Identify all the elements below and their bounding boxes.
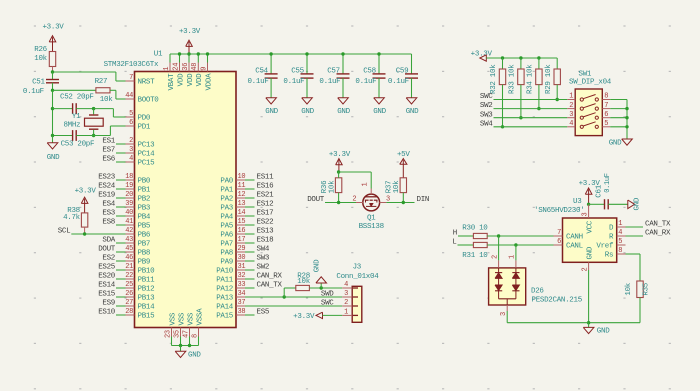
wire VBAT stub: [169, 54, 171, 63]
svg-text:24: 24: [172, 63, 180, 71]
capacitor C55 0.1uF: [306, 54, 308, 74]
wire to label ES17: [245, 215, 255, 217]
wire VSS bottom rail: [172, 345, 199, 347]
U1 pin 23 VSS (bottom): [171, 328, 173, 337]
svg-text:DIN: DIN: [417, 196, 430, 204]
resistor R26 10k: [49, 52, 55, 67]
D26 pin 2 (left): [498, 236, 500, 260]
junction SCL/R38: [83, 232, 86, 235]
wire PA13 to J3 (SWD): [245, 296, 342, 298]
junction gnd rail: [587, 321, 590, 324]
wire to label ES4: [116, 206, 126, 208]
wire to gnd bus: [610, 108, 627, 110]
svg-text:32: 32: [238, 272, 246, 280]
connector J3 Conn_01x04 body: [352, 286, 362, 322]
U3 pin 4 R: [617, 235, 626, 237]
wire R37 bottom: [402, 193, 404, 203]
svg-text:+3.3V: +3.3V: [329, 151, 351, 159]
wire SW2 row: [494, 108, 568, 110]
svg-text:PC14: PC14: [138, 151, 156, 159]
svg-text:R34 10k: R34 10k: [527, 64, 535, 94]
resistor R37 10k: [400, 178, 406, 193]
wire R36 top: [338, 172, 340, 178]
svg-text:Y1: Y1: [72, 113, 81, 121]
wire +3.3V to pin1: [323, 314, 343, 316]
wire to label ES21: [245, 197, 255, 199]
svg-text:R27: R27: [95, 78, 108, 86]
wire SCL: [71, 233, 125, 235]
SW1 pin 3: [567, 117, 575, 119]
wire R30 to CANH: [487, 235, 553, 237]
junction GND rail bottom: [51, 134, 54, 137]
svg-text:29: 29: [238, 245, 246, 253]
svg-text:CANH: CANH: [566, 234, 583, 242]
svg-text:GND: GND: [406, 108, 419, 116]
wire R36 bottom: [338, 193, 340, 203]
wire BOOT0 net: [110, 89, 116, 91]
U1 pin 25 PB12 (left): [126, 287, 135, 289]
svg-text:VDDA: VDDA: [205, 73, 213, 91]
wire to label ES10: [116, 314, 126, 316]
svg-text:ES1: ES1: [102, 138, 115, 146]
svg-text:ES25: ES25: [98, 264, 116, 272]
ground right of C61 (right-pointing): [628, 200, 635, 209]
resistor R28 10k: [296, 285, 310, 290]
svg-text:10k: 10k: [625, 282, 633, 295]
svg-text:16: 16: [238, 227, 246, 235]
wire to label ES22: [245, 224, 255, 226]
svg-text:PB10: PB10: [138, 268, 156, 276]
svg-text:PB15: PB15: [138, 313, 156, 321]
svg-text:PA10: PA10: [216, 268, 234, 276]
wire DIP +3.3V rail: [486, 57, 557, 59]
svg-text:7: 7: [557, 229, 561, 237]
svg-text:PA5: PA5: [220, 223, 233, 231]
U1 pin 1 VBAT (top): [169, 63, 171, 72]
svg-text:PA15: PA15: [216, 313, 234, 321]
wire to label ES14: [116, 287, 126, 289]
SW1 pin 2: [567, 108, 575, 110]
U1 pin 40 PB4 (left): [126, 215, 135, 217]
U1 pin 6 PD1 (left): [126, 125, 135, 127]
svg-text:GND: GND: [313, 259, 321, 272]
svg-text:CANL: CANL: [566, 243, 584, 251]
svg-text:13: 13: [238, 200, 246, 208]
svg-text:VSSA: VSSA: [196, 308, 204, 326]
svg-text:PD0: PD0: [138, 115, 151, 123]
switch element: [580, 107, 583, 110]
junction row: [537, 107, 540, 110]
U1 pin 15 PA5 (right): [236, 224, 245, 226]
U1 pin 32 PA11 (right): [236, 278, 245, 280]
capacitor C58 0.1uF: [378, 54, 380, 74]
svg-text:48: 48: [191, 63, 199, 71]
svg-text:0.1uF: 0.1uF: [319, 78, 340, 86]
svg-text:C55: C55: [291, 68, 304, 76]
wire PD0 net (OSC_IN): [94, 108, 114, 110]
svg-text:D26: D26: [531, 287, 544, 295]
U1 pin 34 PA13 (right): [236, 296, 245, 298]
U1 pin 11 PA1 (right): [236, 188, 245, 190]
svg-text:25: 25: [125, 281, 133, 289]
svg-text:ES23: ES23: [98, 174, 116, 182]
wire +3.3V top rail: [170, 53, 412, 55]
svg-text:3: 3: [569, 111, 573, 119]
svg-text:SW3: SW3: [257, 255, 270, 263]
svg-text:11: 11: [238, 182, 246, 190]
U1 pin 33 PA12 (right): [236, 287, 245, 289]
svg-text:6: 6: [129, 119, 133, 127]
svg-text:36: 36: [182, 63, 190, 71]
svg-text:J3: J3: [353, 264, 362, 272]
U1 pin 5 PD0 (left): [126, 116, 135, 118]
svg-text:CAN_RX: CAN_RX: [645, 230, 671, 238]
resistor R38 4.7k: [81, 213, 87, 227]
J3 pin 1: [342, 314, 352, 316]
junction crystal top: [92, 107, 95, 110]
svg-text:BSS138: BSS138: [359, 223, 384, 231]
wire to label ES13: [245, 233, 255, 235]
wire PA14 to J3 (SWC): [245, 305, 342, 307]
svg-text:37: 37: [238, 299, 246, 307]
U1 pin 14 PA4 (right): [236, 215, 245, 217]
wire SWC row: [494, 99, 568, 101]
wire VDD stub 9: [207, 54, 209, 63]
switch SW1 SW_DIP_x04 body: [575, 89, 602, 136]
wire PD1 net (OSC_OUT): [94, 135, 111, 137]
wire to label ES8: [116, 224, 126, 226]
wire to label ES19: [116, 197, 126, 199]
wire to label ES3: [116, 215, 126, 217]
wire R34 to row: [538, 85, 540, 109]
svg-text:34: 34: [238, 290, 246, 298]
svg-text:0.1uF: 0.1uF: [604, 173, 612, 193]
svg-text:ES5: ES5: [257, 309, 270, 317]
svg-text:R35: R35: [642, 282, 650, 295]
resistor R27 10k: [53, 89, 96, 91]
wire to label ES9: [116, 305, 126, 307]
svg-text:ES9: ES9: [102, 300, 115, 308]
junction rail: [519, 56, 522, 59]
svg-text:NRST: NRST: [138, 79, 156, 87]
svg-text:PA2: PA2: [220, 196, 233, 204]
svg-text:R32 10k: R32 10k: [490, 64, 498, 94]
wire R31 to CANL: [487, 244, 553, 246]
svg-text:U3: U3: [573, 198, 582, 206]
U3 pin 1 D: [617, 226, 626, 228]
ground below C59: [406, 98, 417, 104]
U3 pin 2 GND (bottom): [588, 262, 590, 270]
SW1 pin 5: [602, 126, 610, 128]
wire to label SW2: [245, 269, 255, 271]
U1 pin 13 PA3 (right): [236, 206, 245, 208]
wire H: [458, 235, 473, 237]
wire to label CAN_RX: [245, 278, 255, 280]
U1 pin 2 PC13 (left): [126, 143, 135, 145]
wire to label ES5: [245, 314, 255, 316]
junction: [206, 52, 209, 55]
SW1 pin 1: [567, 99, 575, 101]
svg-text:ES15: ES15: [98, 291, 116, 299]
svg-text:PB5: PB5: [138, 223, 151, 231]
U1 pin 42 PB6 (left): [126, 233, 135, 235]
U1 pin 45 PB8 (left): [126, 251, 135, 253]
svg-text:C52 20pF: C52 20pF: [60, 94, 94, 102]
svg-text:2: 2: [569, 102, 573, 110]
svg-text:VSS: VSS: [187, 312, 195, 325]
svg-text:ES17: ES17: [257, 210, 274, 218]
svg-text:Vref: Vref: [596, 243, 614, 251]
D26 pin 3 (bottom): [506, 299, 508, 305]
capacitor C52 20pF: [53, 108, 73, 110]
svg-text:10k: 10k: [393, 180, 401, 193]
svg-text:10k: 10k: [329, 180, 337, 193]
svg-text:45: 45: [125, 245, 133, 253]
svg-text:SWD: SWD: [321, 291, 334, 299]
svg-text:PB14: PB14: [138, 304, 156, 312]
svg-text:ES11: ES11: [257, 174, 275, 182]
svg-text:10k: 10k: [297, 278, 310, 286]
ground below C57: [338, 98, 349, 104]
junction NRST node: [51, 70, 54, 73]
svg-text:BOOT0: BOOT0: [138, 97, 160, 105]
capacitor C54 0.1uF: [270, 54, 272, 74]
wire D26 to gnd rail: [506, 311, 508, 323]
svg-text:1: 1: [618, 220, 622, 228]
U1 pin 44 BOOT0 (left): [126, 98, 135, 100]
svg-text:GND: GND: [265, 108, 278, 116]
svg-text:1: 1: [163, 67, 171, 71]
svg-text:0.1uF: 0.1uF: [355, 78, 376, 86]
U1 pin 26 PB13 (left): [126, 296, 135, 298]
svg-text:PB0: PB0: [138, 178, 151, 186]
svg-text:C61: C61: [596, 184, 604, 197]
svg-text:33: 33: [238, 281, 246, 289]
svg-text:PA7: PA7: [220, 241, 233, 249]
svg-text:19: 19: [125, 182, 133, 190]
wire Rs to R35: [626, 253, 641, 255]
resistor R35 10k: [637, 281, 643, 298]
junction rail: [537, 56, 540, 59]
svg-text:31: 31: [238, 263, 246, 271]
U1 pin 36 VDD (top): [188, 63, 190, 72]
U1 pin 27 PB14 (left): [126, 305, 135, 307]
U1 pin 47 VSS (bottom): [189, 328, 191, 337]
junction: [178, 52, 181, 55]
svg-text:2: 2: [344, 299, 348, 307]
junction row: [556, 98, 559, 101]
wire to label ES6: [116, 161, 126, 163]
junction VSS rail: [179, 344, 182, 347]
U1 pin 20 PB2 (left): [126, 197, 135, 199]
junction VCC node: [587, 203, 590, 206]
svg-text:PB1: PB1: [138, 187, 151, 195]
U1 pin 30 PA9 (right): [236, 260, 245, 262]
svg-text:VCC: VCC: [587, 220, 595, 233]
wire R33 to row: [520, 85, 522, 118]
svg-text:8: 8: [618, 247, 622, 255]
svg-text:40: 40: [125, 209, 133, 217]
svg-text:CAN_TX: CAN_TX: [257, 282, 283, 290]
junction: [187, 52, 190, 55]
wire U3 GND down: [588, 270, 590, 323]
wire SW4 row: [494, 126, 568, 128]
svg-text:12: 12: [238, 191, 246, 199]
U1 pin 22 PB11 (left): [126, 278, 135, 280]
junction C52 row: [51, 107, 54, 110]
wire CAN_TX: [626, 226, 644, 228]
wire VDD stub 24: [179, 54, 181, 63]
svg-text:SW2: SW2: [257, 264, 270, 272]
svg-text:C57: C57: [327, 68, 340, 76]
svg-text:4: 4: [344, 281, 348, 289]
svg-text:PB13: PB13: [138, 295, 156, 303]
U3 pin 3 VCC (top): [588, 204, 590, 218]
svg-text:46: 46: [125, 254, 133, 262]
svg-text:PB11: PB11: [138, 277, 156, 285]
SW1 pin 4: [567, 126, 575, 128]
wire to label ES23: [116, 179, 126, 181]
ground DIP: [622, 139, 633, 145]
U1 pin 16 PA6 (right): [236, 233, 245, 235]
svg-text:CAN_RX: CAN_RX: [257, 273, 283, 281]
svg-text:0.1uF: 0.1uF: [247, 78, 268, 86]
svg-text:Conn_01x04: Conn_01x04: [336, 273, 379, 281]
wire to gnd bus: [610, 126, 627, 128]
svg-text:0.1uF: 0.1uF: [23, 88, 44, 96]
svg-text:18: 18: [125, 173, 133, 181]
wire to label CAN_TX: [245, 287, 255, 289]
svg-text:0.1uF: 0.1uF: [283, 78, 304, 86]
ground below C55: [302, 98, 313, 104]
svg-text:SW4: SW4: [257, 246, 270, 254]
ground below C54: [266, 98, 277, 104]
D26 pin 1 (right): [515, 245, 517, 260]
svg-text:CAN_TX: CAN_TX: [645, 221, 671, 229]
svg-text:SDA: SDA: [102, 237, 115, 245]
ground left column: [52, 136, 54, 143]
svg-text:14: 14: [238, 209, 246, 217]
junction: [377, 52, 380, 55]
svg-text:21: 21: [125, 263, 133, 271]
svg-text:ES12: ES12: [257, 201, 274, 209]
svg-text:10: 10: [238, 173, 246, 181]
svg-text:1: 1: [509, 255, 517, 259]
IC U3 SN65HVD230 body: [563, 218, 617, 262]
resistor R36 10k: [335, 178, 341, 193]
wire to label ES18: [245, 242, 255, 244]
crystal Y1 8MHz: [93, 109, 95, 115]
junction row: [519, 116, 522, 119]
junction crystal bottom: [92, 134, 95, 137]
svg-text:PA12: PA12: [216, 286, 233, 294]
svg-text:ES24: ES24: [98, 183, 116, 191]
U1 pin 46 PB9 (left): [126, 260, 135, 262]
svg-text:VBAT: VBAT: [168, 73, 176, 91]
svg-text:1: 1: [362, 183, 370, 187]
svg-text:PA3: PA3: [220, 205, 233, 213]
svg-text:PA13: PA13: [216, 295, 234, 303]
svg-text:ES19: ES19: [98, 192, 115, 200]
U1 pin 10 PA0 (right): [236, 179, 245, 181]
svg-text:PB12: PB12: [138, 286, 155, 294]
resistor R31 10: [473, 242, 487, 247]
SW1 pin 7: [602, 108, 610, 110]
svg-text:ES14: ES14: [98, 282, 116, 290]
svg-text:GND: GND: [337, 108, 350, 116]
wire R29 to row: [556, 85, 558, 100]
svg-text:42: 42: [125, 227, 133, 235]
svg-text:PA11: PA11: [216, 277, 234, 285]
capacitor C61 0.1uF: [589, 203, 605, 205]
U1 pin 41 PB5 (left): [126, 224, 135, 226]
resistor R29 10k: [556, 58, 558, 69]
wire to label ES12: [245, 206, 255, 208]
svg-text:U1: U1: [154, 50, 163, 58]
svg-text:+5V: +5V: [397, 151, 410, 159]
D26 internal diodes: [498, 268, 500, 273]
svg-text:GND: GND: [587, 246, 595, 259]
svg-text:PA0: PA0: [220, 178, 233, 186]
svg-text:R31 10: R31 10: [462, 252, 488, 260]
wire to gnd bus: [610, 99, 627, 101]
ground above J3 pin4 (up): [320, 283, 322, 288]
J3 pin 3: [342, 296, 352, 298]
svg-text:ES20: ES20: [98, 273, 116, 281]
svg-text:GND: GND: [373, 108, 386, 116]
wire SW3 row: [494, 117, 568, 119]
diode D26 PESD2CAN body: [489, 268, 526, 305]
svg-text:1: 1: [569, 93, 573, 101]
J3 pin 4: [342, 287, 352, 289]
svg-text:SCL: SCL: [58, 228, 71, 236]
svg-text:41: 41: [125, 218, 133, 226]
wire R28 branch: [283, 288, 285, 297]
U1 pin 39 PB3 (left): [126, 206, 135, 208]
svg-text:R30 10: R30 10: [462, 224, 488, 232]
svg-text:PB3: PB3: [138, 205, 151, 213]
svg-text:3: 3: [344, 290, 348, 298]
U1 pin 29 PA8 (right): [236, 251, 245, 253]
ground CAN section: [588, 323, 590, 328]
U3 pin 6 CANL: [554, 244, 563, 246]
switch element: [580, 98, 583, 101]
svg-text:VDD: VDD: [187, 73, 195, 86]
svg-text:SWC: SWC: [321, 300, 334, 308]
junction GND rail top: [51, 89, 54, 92]
junction PA13/R28: [283, 295, 286, 298]
svg-text:PA9: PA9: [220, 259, 233, 267]
wire to label ES7: [116, 152, 126, 154]
svg-text:ES3: ES3: [102, 210, 115, 218]
wire to label ES11: [245, 179, 255, 181]
svg-text:2: 2: [352, 195, 356, 203]
svg-text:PB8: PB8: [138, 250, 151, 258]
svg-text:ES10: ES10: [98, 309, 116, 317]
junction: [269, 52, 272, 55]
transistor Q1 BSS138: [363, 194, 380, 211]
U1 pin 38 PA15 (right): [236, 314, 245, 316]
svg-text:'SN65HVD230': 'SN65HVD230': [534, 207, 584, 215]
U1 pin 31 PA10 (right): [236, 269, 245, 271]
junction GND/pin4: [320, 286, 323, 289]
wire to gnd bus: [610, 117, 627, 119]
wire DIP gnd bus: [626, 100, 628, 139]
wire DOUT: [325, 202, 363, 204]
svg-text:ES18: ES18: [257, 237, 274, 245]
switch element: [580, 125, 583, 128]
wire R32 to row: [502, 85, 504, 127]
